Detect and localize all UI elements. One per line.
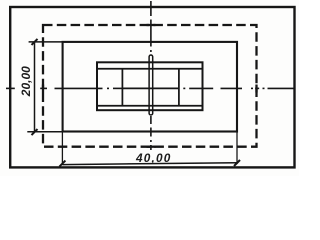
singles sideline bottom: [97, 105, 203, 107]
dimension 20,00 extension top: [29, 41, 63, 43]
svg-text:40,00: 40,00: [135, 151, 172, 165]
service line right: [178, 69, 180, 106]
tick bottom: [32, 129, 38, 135]
dimension 40,00 extension left: [61, 132, 63, 166]
dimension line 20,00: [34, 42, 36, 132]
paper background: [0, 0, 299, 176]
playground rectangle 40x20: [63, 42, 237, 132]
tick right: [234, 160, 240, 166]
net symbol capsule: [149, 55, 153, 115]
center service line: [122, 87, 178, 89]
dashed boundary rectangle: [43, 25, 257, 147]
horizontal centerline: [6, 87, 294, 89]
dashed rect crossing patch right: [255, 85, 257, 93]
tick top: [32, 39, 38, 45]
vertical centerline: [150, 1, 152, 150]
dimension 40,00 extension right: [236, 132, 238, 165]
court outline: [97, 62, 203, 110]
singles sideline top: [97, 68, 203, 70]
dashed rect crossing patch bottom: [147, 146, 156, 148]
dimension 20,00 extension bottom: [27, 131, 62, 133]
tick left: [59, 161, 65, 167]
outer frame: [10, 7, 294, 167]
svg-text:20,00: 20,00: [19, 66, 33, 97]
dashed rect crossing patch top: [147, 24, 156, 26]
dashed rect crossing patch left: [42, 85, 44, 93]
dimension line 40,00: [62, 163, 237, 165]
service line left: [121, 69, 123, 106]
